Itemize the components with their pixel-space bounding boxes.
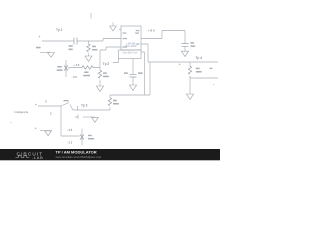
- svg-text:Tp 2: Tp 2: [103, 62, 110, 66]
- svg-text:Tp 4: Tp 4: [196, 56, 203, 60]
- svg-text:+ 0.5: + 0.5: [74, 63, 80, 67]
- svg-text:+ 8 V: + 8 V: [148, 28, 155, 32]
- svg-text:Tp 3: Tp 3: [81, 104, 88, 108]
- svg-text:- 0.5: - 0.5: [67, 140, 73, 144]
- svg-text:- 0.5: - 0.5: [72, 75, 78, 79]
- svg-text:Tp 1: Tp 1: [56, 28, 63, 32]
- svg-text:- 0.5: - 0.5: [67, 128, 73, 132]
- svg-text:Inteligencia: Inteligencia: [15, 110, 29, 114]
- svg-text:+: +: [35, 103, 37, 107]
- svg-text:+: +: [179, 62, 181, 66]
- svg-text:TP / AM MODULATOR: TP / AM MODULATOR: [56, 149, 97, 154]
- svg-text:Gain Bal Cntrl: Gain Bal Cntrl: [122, 52, 137, 55]
- svg-text:BAL MOD: BAL MOD: [125, 45, 136, 48]
- svg-text:+: +: [39, 35, 41, 39]
- svg-text:www.circuitlab.com/c/25du64jk/: www.circuitlab.com/c/25du64jk/am-mod: [56, 155, 102, 159]
- svg-text:-LAB: -LAB: [32, 155, 44, 160]
- svg-text:+: +: [35, 126, 37, 130]
